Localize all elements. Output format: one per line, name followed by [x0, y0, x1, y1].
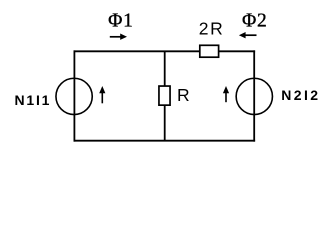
resistor 2R	[200, 45, 219, 57]
wire top	[74, 50, 256, 52]
svg-text:N2I2: N2I2	[281, 87, 320, 103]
current source N2I2	[236, 78, 272, 114]
wire bottom	[74, 140, 256, 142]
arrow I1 direction	[99, 86, 105, 103]
arrow I2 direction	[223, 86, 229, 102]
wire left branch	[73, 50, 75, 141]
svg-text:2R: 2R	[199, 19, 225, 39]
current source N1I1	[56, 78, 92, 114]
svg-text:Φ1: Φ1	[108, 10, 134, 31]
svg-text:Φ2: Φ2	[242, 10, 268, 31]
wire middle branch	[164, 51, 166, 140]
wire right branch	[253, 50, 255, 141]
svg-text:R: R	[177, 85, 190, 105]
arrow Φ2 direction	[239, 32, 257, 38]
svg-text:N1I1: N1I1	[15, 92, 52, 108]
resistor R	[159, 86, 170, 105]
arrow Φ1 direction	[110, 34, 127, 40]
